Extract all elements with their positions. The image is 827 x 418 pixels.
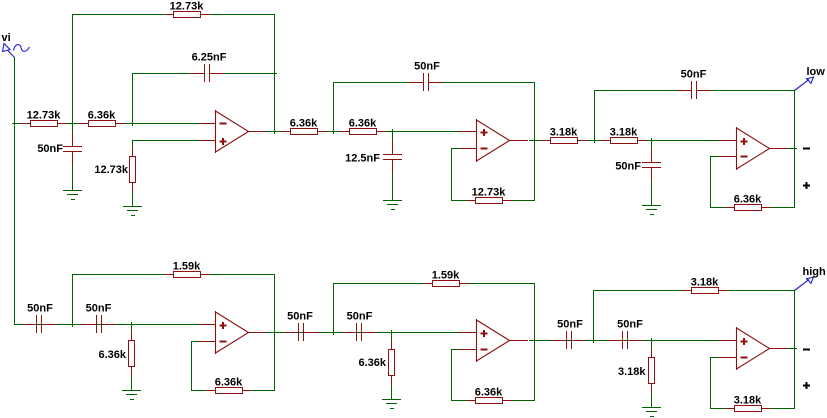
wire U3 inverting input stub xyxy=(710,156,720,158)
capacitor 50nF (stage2 feedback) xyxy=(409,60,443,91)
wire bias resistor lower lead to ground (stage1) xyxy=(132,184,134,207)
junction node B (6.25nF feedback tap) xyxy=(132,123,134,126)
wire node B vertical up to 6.25nF feedback xyxy=(132,73,134,124)
wire U3 inverting feedback vertical xyxy=(710,156,712,208)
svg-text:6.36k: 6.36k xyxy=(475,386,503,398)
wire stage4 lower feedback right segment xyxy=(251,390,275,392)
svg-text:12.5nF: 12.5nF xyxy=(345,153,380,165)
wire U2 inverting input stub xyxy=(451,148,460,150)
svg-text:50nF: 50nF xyxy=(287,310,313,322)
wire node K vertical up to 3.18k feedback (stage 6) xyxy=(593,290,595,341)
junction U1 output xyxy=(274,131,276,134)
wire bottom row line F: U5 output to U6 xyxy=(529,340,720,342)
op-amp U2 (stage 2, non-inverting input on top) xyxy=(459,119,528,162)
svg-text:50nF: 50nF xyxy=(615,161,641,173)
svg-text:3.18k: 3.18k xyxy=(691,276,719,288)
wire stage6 lower feedback right segment xyxy=(769,408,795,410)
svg-text:12.73k: 12.73k xyxy=(94,164,129,176)
wire bottom row line D: input caps to op-amp U4 xyxy=(14,324,199,326)
capacitor 50nF (stage6 input) xyxy=(552,318,586,349)
wire stage2 lower feedback left segment xyxy=(451,200,467,202)
wire stage5 1.59k feedback horizontal xyxy=(333,283,535,285)
wire U5 inverting input stub xyxy=(451,349,460,351)
resistor 12.73k (stage1 input) xyxy=(21,109,67,126)
junction node H xyxy=(131,322,133,325)
resistor 6.36k (U5 feedback) xyxy=(466,386,512,403)
op-amp U4 (stage 4, non-inverting input on top) xyxy=(198,311,267,354)
wire 6.36k shunt lower lead to ground (stage5) xyxy=(391,377,393,400)
wire stage2 50nF feedback right segment xyxy=(429,82,535,84)
resistor 3.18k (stage6 feedback) xyxy=(682,276,728,293)
capacitor 50nF (stage5 series) xyxy=(342,310,376,341)
junction high output xyxy=(794,348,797,350)
wire top row line C: U2 output to U3 non-inverting input xyxy=(529,140,720,142)
wire stage2 lower feedback right segment xyxy=(511,200,535,202)
wire corner down to bias resistor R 12.73k xyxy=(132,140,134,150)
svg-text:high: high xyxy=(803,266,826,278)
svg-text:50nF: 50nF xyxy=(27,302,53,314)
resistor 6.36k (U4 feedback) xyxy=(206,376,252,393)
resistor 6.36k (stage1 series) xyxy=(79,109,125,126)
node arrow low xyxy=(795,77,814,91)
resistor 1.59k (stage4 feedback) xyxy=(164,260,210,277)
op-amp U5 (stage 5, non-inverting input on top) xyxy=(459,319,528,362)
wire top feedback horizontal (12.73k) to U1 output column xyxy=(72,14,275,16)
junction node C xyxy=(333,131,335,134)
svg-text:12.73k: 12.73k xyxy=(170,0,205,12)
wire U2 inverting feedback vertical xyxy=(451,148,453,201)
svg-text:6.36k: 6.36k xyxy=(98,349,126,361)
wire stage3 50nF feedback left segment xyxy=(594,90,691,92)
wire input vertical from vi source down to high-pass row xyxy=(14,57,16,325)
wire U5 inverting feedback vertical xyxy=(451,349,453,401)
junction node I xyxy=(333,332,335,335)
wire stage6 lower feedback left segment xyxy=(710,408,725,410)
svg-text:3.18k: 3.18k xyxy=(734,394,762,406)
resistor 1.59k (stage5 feedback) xyxy=(423,269,469,286)
output polarity marker plus (low) xyxy=(803,182,810,189)
junction node F xyxy=(651,138,653,141)
svg-text:6.36k: 6.36k xyxy=(290,117,318,129)
wire stage4 lower feedback left segment xyxy=(191,390,207,392)
capacitor 6.25nF (stage1 feedback) xyxy=(190,51,227,82)
resistor 3.18k (U6 feedback) xyxy=(725,394,771,411)
svg-text:vi: vi xyxy=(2,32,11,44)
resistor 3.18k (stage3 series) xyxy=(601,126,647,143)
wire node F down to 50nF capacitor xyxy=(651,140,653,155)
svg-text:50nF: 50nF xyxy=(681,68,707,80)
wire node G vertical up to 1.59k feedback (stage 4) xyxy=(72,274,74,325)
wire node I vertical up to 1.59k feedback (stage 5) xyxy=(333,283,335,333)
resistor 6.36k (stage2 input) xyxy=(281,117,327,134)
svg-text:12.73k: 12.73k xyxy=(472,186,507,198)
svg-text:50nF: 50nF xyxy=(86,302,112,314)
resistor 3.18k (stage6 shunt to ground) xyxy=(618,348,655,393)
wire top row line A: input to op-amp U1 inverting input xyxy=(12,123,199,125)
wire U6 inverting input stub xyxy=(710,357,720,359)
wire 3.18k shunt lower lead to ground (stage6) xyxy=(651,384,653,408)
svg-text:50nF: 50nF xyxy=(557,318,583,330)
capacitor 50nF (stage3 feedback) xyxy=(677,68,711,99)
op-amp U6 (stage 6, non-inverting input on top) xyxy=(719,327,788,370)
wire 6.36k shunt lower lead to ground (stage4) xyxy=(131,368,133,391)
wire stage4 1.59k feedback horizontal xyxy=(72,274,275,276)
junction low output xyxy=(794,148,797,150)
svg-text:50nF: 50nF xyxy=(617,318,643,330)
junction node J xyxy=(391,330,393,333)
ground (stage4 shunt resistor) xyxy=(122,391,141,400)
wire stage3 lower feedback right segment xyxy=(770,207,795,209)
wire stage2 feedback column vertical at U2 output xyxy=(534,82,536,201)
svg-text:3.18k: 3.18k xyxy=(618,366,646,378)
resistor 12.73k (U1 non-inverting bias) xyxy=(94,147,135,192)
svg-text:6.36k: 6.36k xyxy=(88,109,116,121)
wire node D down to 12.5nF capacitor xyxy=(392,131,394,145)
svg-text:6.25nF: 6.25nF xyxy=(192,51,227,63)
wire stage3 50nF feedback right segment xyxy=(697,90,795,92)
junction node G xyxy=(72,324,74,327)
capacitor 50nF (node A to ground) xyxy=(37,133,82,165)
wire high output column vertical xyxy=(794,290,796,409)
wire U1 non-inverting input from bias resistor corner xyxy=(132,140,199,142)
capacitor 50nF (stage6 series) xyxy=(608,318,643,349)
wire node A down to 50nF capacitor xyxy=(72,123,74,138)
svg-text:50nF: 50nF xyxy=(347,310,373,322)
op-amp U1 (stage 1, inverting input on top) xyxy=(198,110,267,153)
ground (U1 bias resistor) xyxy=(123,207,142,216)
capacitor 50nF (stage3 shunt to ground) xyxy=(615,149,661,181)
wire U6 inverting feedback vertical xyxy=(710,357,712,409)
resistor 12.73k (U2 feedback) xyxy=(466,186,512,203)
source sine symbol xyxy=(14,45,30,52)
junction node K xyxy=(593,340,595,343)
wire 12.5nF lower lead to ground xyxy=(392,160,394,201)
wire stage4 feedback column vertical at U4 output xyxy=(274,274,276,391)
svg-text:6.36k: 6.36k xyxy=(349,117,377,129)
svg-text:12.73k: 12.73k xyxy=(27,109,62,121)
svg-text:6.36k: 6.36k xyxy=(358,357,386,369)
capacitor 50nF (stage5 input) xyxy=(284,310,318,341)
wire 50nF (node A) lower lead to ground xyxy=(72,152,74,191)
wire 6.25nF feedback left segment xyxy=(132,73,204,75)
resistor 6.36k (U3 feedback) xyxy=(725,193,771,210)
wire 50nF (node F) lower lead to ground xyxy=(651,168,653,206)
wire top row line B: U1 output to U2 non-inverting input xyxy=(267,131,461,133)
output polarity marker minus (high) xyxy=(803,349,810,351)
wire U6 output to high output node xyxy=(787,348,795,350)
svg-text:50nF: 50nF xyxy=(414,60,440,72)
junction node D xyxy=(392,129,394,132)
output polarity marker minus (low) xyxy=(803,148,810,150)
wire node H down to 6.36k shunt resistor xyxy=(131,324,133,334)
wire stage3 lower feedback left segment xyxy=(710,207,726,209)
wire node A vertical up to 12.73k feedback xyxy=(72,14,74,124)
output polarity marker plus (high) xyxy=(803,382,810,389)
ground (stage6 shunt resistor) xyxy=(642,408,661,417)
capacitor 50nF (stage4 series) xyxy=(82,302,116,333)
capacitor 12.5nF (stage2 shunt to ground) xyxy=(345,141,402,173)
svg-text:1.59k: 1.59k xyxy=(432,269,460,281)
svg-text:low: low xyxy=(807,66,826,78)
svg-text:3.18k: 3.18k xyxy=(610,126,638,138)
wire node J down to 6.36k shunt resistor xyxy=(391,332,393,342)
ground (stage2 shunt capacitor) xyxy=(383,201,402,210)
wire stage2 50nF feedback left segment xyxy=(333,82,423,84)
wire low output column vertical xyxy=(794,90,796,208)
junction node L xyxy=(651,338,653,341)
junction node E xyxy=(594,140,596,143)
wire U3 output to low output node xyxy=(787,148,795,150)
ground (stage3 shunt capacitor) xyxy=(642,206,661,215)
source arrow vi xyxy=(3,44,15,58)
wire 6.25nF feedback right segment xyxy=(212,73,277,75)
op-amp U3 (stage 3, non-inverting input on top) xyxy=(719,127,788,170)
svg-text:1.59k: 1.59k xyxy=(173,260,201,272)
node arrow high xyxy=(795,277,814,291)
wire U1 output column vertical (feedback tie) xyxy=(274,14,276,132)
wire bottom row line E: U4 output to U5 xyxy=(267,332,461,334)
wire stage5 lower feedback left segment xyxy=(451,400,467,402)
svg-text:6.36k: 6.36k xyxy=(215,376,243,388)
svg-text:6.36k: 6.36k xyxy=(734,193,762,205)
resistor 6.36k (stage5 shunt to ground) xyxy=(358,340,394,385)
resistor 12.73k (stage1 feedback) xyxy=(164,0,210,17)
resistor 6.36k (stage4 shunt to ground) xyxy=(98,331,134,376)
svg-text:3.18k: 3.18k xyxy=(550,126,578,138)
resistor 6.36k (stage2 series) xyxy=(340,117,386,134)
wire stage5 feedback column vertical at U5 output xyxy=(534,283,536,401)
wire stage6 3.18k feedback horizontal xyxy=(593,290,795,292)
capacitor 50nF (stage4 input) xyxy=(22,302,56,333)
wire U4 inverting feedback vertical xyxy=(191,341,193,391)
wire node L down to 3.18k shunt resistor xyxy=(651,340,653,350)
wire U4 inverting input stub xyxy=(191,341,199,343)
ground (stage5 shunt resistor) xyxy=(382,400,401,409)
wire stage5 lower feedback right segment xyxy=(511,400,535,402)
wire node E vertical up to 50nF feedback (stage 3) xyxy=(594,90,596,141)
ground (node A capacitor) xyxy=(63,191,82,200)
wire node C vertical up to 50nF feedback (stage 2) xyxy=(333,82,335,132)
svg-text:50nF: 50nF xyxy=(37,143,63,155)
resistor 3.18k (stage3 input) xyxy=(541,126,587,143)
